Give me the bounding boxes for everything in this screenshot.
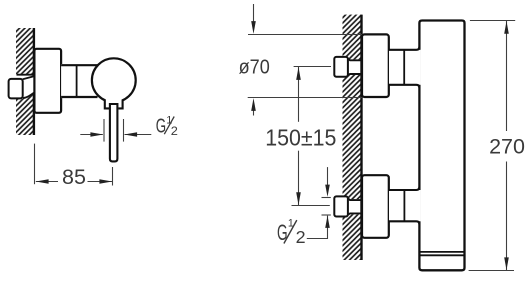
svg-text:2: 2 — [296, 227, 306, 247]
svg-text:150±15: 150±15 — [265, 125, 336, 151]
svg-text:G: G — [277, 220, 288, 245]
svg-text:85: 85 — [62, 165, 86, 189]
svg-text:270: 270 — [489, 135, 525, 159]
svg-text:2: 2 — [171, 124, 178, 138]
svg-text:ø70: ø70 — [239, 57, 270, 79]
